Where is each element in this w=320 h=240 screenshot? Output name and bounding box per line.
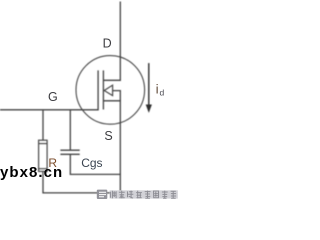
svg-text:ybx8.cn: ybx8.cn bbox=[0, 164, 63, 181]
svg-text:D: D bbox=[103, 36, 112, 50]
svg-text:d: d bbox=[160, 87, 165, 97]
svg-text:G: G bbox=[48, 90, 58, 104]
svg-text:Cgs: Cgs bbox=[81, 156, 102, 170]
svg-text:S: S bbox=[104, 129, 112, 143]
svg-text:i: i bbox=[156, 83, 159, 97]
